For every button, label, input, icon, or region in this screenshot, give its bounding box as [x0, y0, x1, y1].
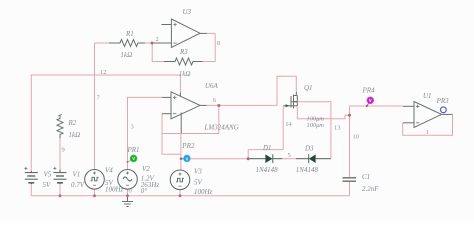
svg-text:5V: 5V — [43, 181, 52, 189]
svg-text:R2: R2 — [68, 119, 77, 127]
svg-text:2.2nF: 2.2nF — [362, 185, 379, 193]
svg-text:PR2: PR2 — [181, 142, 195, 150]
svg-text:8: 8 — [217, 40, 220, 47]
svg-text:5V: 5V — [194, 179, 203, 187]
svg-text:10: 10 — [353, 134, 360, 141]
svg-text:12: 12 — [100, 69, 107, 76]
svg-text:V: V — [132, 156, 135, 161]
svg-text:3: 3 — [131, 124, 134, 131]
svg-text:PR4: PR4 — [362, 86, 376, 94]
svg-text:2: 2 — [156, 36, 159, 43]
svg-text:0.7V: 0.7V — [71, 181, 85, 189]
svg-text:D1: D1 — [262, 144, 272, 152]
svg-text:U6A: U6A — [205, 82, 219, 90]
svg-text:0: 0 — [129, 188, 132, 195]
svg-text:U1: U1 — [423, 92, 432, 100]
svg-text:100Hz: 100Hz — [105, 186, 124, 194]
svg-text:1kΩ: 1kΩ — [69, 131, 81, 139]
svg-text:0°: 0° — [141, 187, 148, 195]
svg-text:13: 13 — [334, 125, 341, 132]
svg-text:C1: C1 — [362, 173, 370, 181]
svg-text:V3: V3 — [194, 168, 202, 176]
svg-text:V: V — [369, 98, 372, 103]
svg-text:5: 5 — [288, 152, 291, 159]
svg-text:1kΩ: 1kΩ — [179, 70, 191, 78]
svg-text:V2: V2 — [142, 165, 150, 173]
svg-text:V4: V4 — [105, 167, 113, 175]
svg-text:9: 9 — [62, 147, 65, 154]
svg-text:100Hz: 100Hz — [194, 188, 213, 196]
svg-text:R1: R1 — [125, 30, 134, 38]
svg-text:1kΩ: 1kΩ — [121, 51, 133, 59]
svg-text:D3: D3 — [304, 144, 314, 152]
svg-text:PR1: PR1 — [127, 146, 140, 154]
svg-text:V1: V1 — [73, 171, 81, 179]
svg-text:100μm: 100μm — [307, 122, 325, 129]
svg-text:1: 1 — [426, 129, 429, 136]
svg-text:14: 14 — [285, 121, 292, 128]
svg-text:Q1: Q1 — [304, 84, 313, 92]
svg-text:V: V — [186, 156, 189, 161]
svg-text:PR3: PR3 — [436, 97, 450, 105]
svg-text:1N4148: 1N4148 — [296, 166, 319, 174]
svg-text:R3: R3 — [179, 48, 188, 56]
svg-text:V5: V5 — [44, 171, 52, 179]
svg-text:LM324ANG: LM324ANG — [204, 123, 239, 131]
svg-text:U3: U3 — [183, 8, 192, 16]
svg-text:1N4148: 1N4148 — [256, 166, 279, 174]
